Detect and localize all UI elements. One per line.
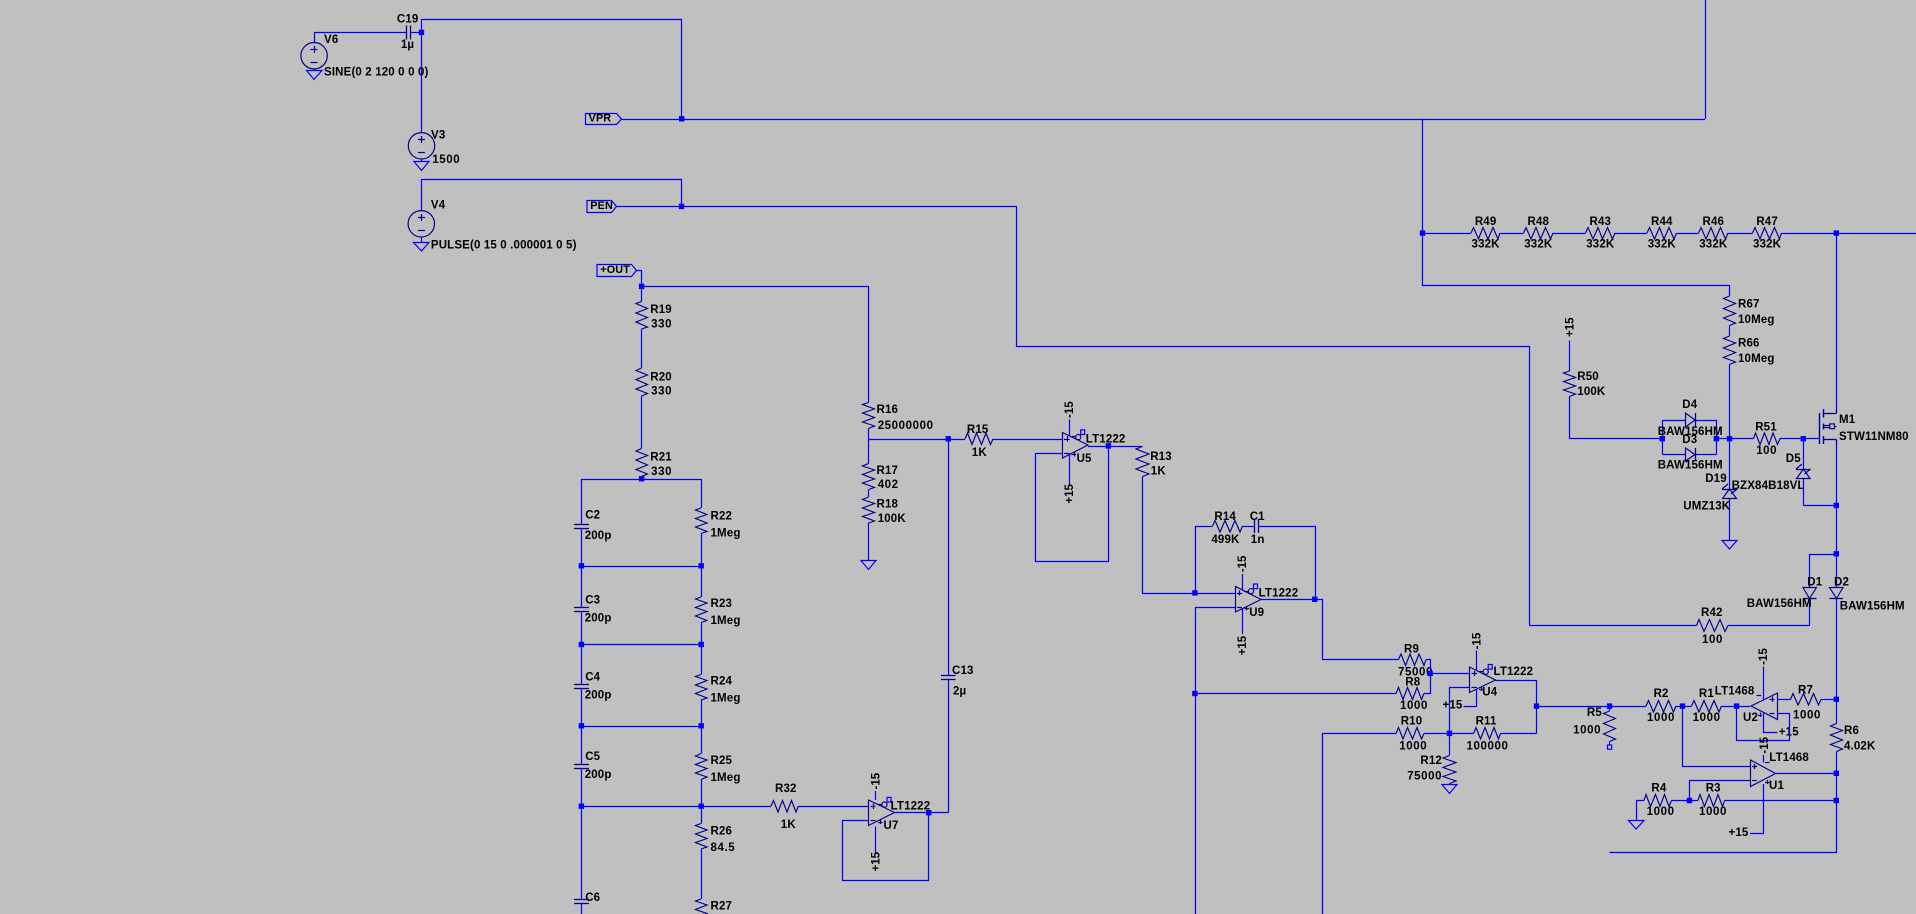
svg-text:1000: 1000	[1400, 700, 1428, 712]
diode D4 BAW156HM	[1686, 413, 1696, 427]
svg-text:100: 100	[1702, 634, 1723, 646]
power pin -15	[1069, 420, 1071, 436]
wire row	[582, 479, 702, 481]
node junction	[579, 642, 584, 647]
wire U5 output	[1088, 446, 1143, 448]
svg-text:R18: R18	[877, 499, 899, 511]
op-amp U9 LT1222	[1236, 587, 1262, 613]
resistor R7	[1791, 694, 1822, 706]
svg-text:R66: R66	[1738, 338, 1760, 350]
svg-text:D4: D4	[1682, 399, 1697, 411]
svg-text:1Meg: 1Meg	[711, 528, 741, 540]
wire	[948, 439, 950, 676]
wire	[1615, 233, 1647, 235]
svg-text:LT1222: LT1222	[1259, 588, 1299, 600]
node junction	[699, 804, 704, 809]
voltage source V6	[301, 43, 327, 69]
svg-text:200p: 200p	[585, 769, 612, 781]
node junction	[946, 436, 951, 441]
svg-text:25000000: 25000000	[878, 420, 934, 432]
svg-text:UMZ13K: UMZ13K	[1683, 501, 1730, 513]
capacitor C13	[941, 675, 956, 677]
svg-text:R47: R47	[1756, 216, 1778, 228]
wire	[1677, 233, 1699, 235]
wire row	[582, 566, 702, 568]
svg-text:1000: 1000	[1399, 741, 1427, 753]
svg-text:332K: 332K	[1524, 239, 1553, 251]
wire	[1422, 119, 1424, 233]
svg-text:R48: R48	[1528, 216, 1550, 228]
wire	[1570, 397, 1663, 439]
power pin -15	[1763, 755, 1765, 763]
wire	[1423, 233, 1472, 235]
node junction	[419, 30, 424, 35]
port square	[1608, 745, 1612, 749]
node junction	[1834, 551, 1839, 556]
svg-text:1000: 1000	[1573, 725, 1601, 737]
wire	[1323, 734, 1397, 914]
power pin +15 wire	[1750, 784, 1764, 834]
wire +OUT rail	[642, 287, 869, 403]
svg-text:R7: R7	[1798, 685, 1813, 697]
svg-text:1µ: 1µ	[401, 39, 414, 51]
node junction	[1714, 436, 1719, 441]
svg-text:R44: R44	[1651, 216, 1673, 228]
svg-text:R3: R3	[1706, 782, 1721, 794]
svg-text:STW11NM80: STW11NM80	[1839, 431, 1909, 443]
svg-text:C3: C3	[585, 595, 600, 607]
svg-text:R17: R17	[877, 465, 899, 477]
resistor R46 332K	[1699, 228, 1729, 240]
svg-text:D2: D2	[1834, 577, 1849, 589]
svg-text:R5: R5	[1587, 707, 1602, 719]
svg-text:332K: 332K	[1753, 239, 1782, 251]
wire	[1500, 233, 1524, 235]
svg-text:VPR: VPR	[589, 112, 612, 124]
resistor R19	[636, 302, 648, 330]
ground	[1449, 784, 1451, 785]
resistor R44 332K	[1647, 228, 1677, 240]
svg-text:PEN: PEN	[590, 200, 613, 212]
capacitor C3	[581, 566, 583, 608]
wire	[1143, 477, 1196, 594]
svg-text:332K: 332K	[1699, 239, 1728, 251]
power pin -15	[1763, 667, 1765, 700]
wire	[314, 32, 406, 34]
svg-text:C13: C13	[952, 665, 974, 677]
wire	[622, 119, 682, 121]
wire	[1725, 800, 1837, 802]
svg-text:10Meg: 10Meg	[1738, 353, 1775, 365]
svg-text:C5: C5	[585, 751, 600, 763]
resistor R4	[1644, 795, 1672, 807]
wire	[1424, 733, 1450, 735]
svg-text:V6: V6	[324, 34, 338, 46]
wire	[1837, 233, 1916, 235]
svg-text:BZX84B18VL: BZX84B18VL	[1732, 480, 1805, 492]
wire	[641, 396, 643, 449]
diode D1 BAW156HM	[1809, 599, 1811, 626]
svg-text:1Meg: 1Meg	[711, 615, 741, 627]
node junction	[1680, 703, 1685, 708]
wire U2 +in	[1777, 699, 1791, 701]
svg-text:PULSE(0 15 0 .000001 0 5): PULSE(0 15 0 .000001 0 5)	[431, 240, 577, 252]
node junction	[1427, 671, 1432, 676]
net label VPR	[586, 114, 622, 125]
wire	[868, 429, 870, 440]
svg-text:U5: U5	[1077, 453, 1092, 465]
node junction	[579, 723, 584, 728]
svg-text:100000: 100000	[1467, 741, 1509, 753]
resistor R20	[636, 368, 648, 396]
wire	[1537, 706, 1610, 708]
resistor R2	[1646, 701, 1676, 713]
svg-text:V4: V4	[431, 200, 446, 212]
wire row	[582, 726, 702, 728]
svg-text:D1: D1	[1807, 577, 1822, 589]
svg-text:R46: R46	[1703, 216, 1725, 228]
svg-text:1Meg: 1Meg	[711, 693, 741, 705]
node junction	[639, 284, 644, 289]
resistor R13	[1136, 447, 1149, 477]
resistor R8	[1396, 688, 1424, 700]
transistor M1 STW11NM80	[1819, 413, 1821, 444]
svg-text:200p: 200p	[585, 613, 612, 625]
capacitor C19	[406, 26, 408, 40]
svg-text:2µ: 2µ	[953, 686, 966, 698]
wire diode box	[1662, 420, 1664, 455]
wire right rail	[1836, 233, 1838, 409]
wire	[1836, 506, 1838, 555]
wire U1 output	[1776, 773, 1837, 775]
svg-text:R9: R9	[1404, 644, 1419, 656]
wire M1 gate	[1804, 438, 1820, 440]
wire	[1729, 326, 1731, 337]
svg-text:75000: 75000	[1407, 771, 1442, 783]
wire	[641, 477, 643, 480]
op-amp U1 LT1468	[1751, 760, 1776, 787]
diode D3 BAW156HM	[1686, 448, 1696, 461]
svg-text:U9: U9	[1249, 607, 1264, 619]
ground	[868, 523, 870, 561]
resistor R27	[696, 899, 708, 914]
svg-text:+15: +15	[871, 851, 883, 871]
resistor R25	[701, 726, 703, 754]
svg-text:D5: D5	[1786, 453, 1801, 465]
wire	[1717, 438, 1730, 440]
resistor R16	[863, 403, 875, 429]
wire	[1730, 438, 1754, 440]
node junction	[679, 116, 684, 121]
svg-text:U2: U2	[1743, 712, 1758, 724]
wire U7 feedback	[843, 813, 929, 881]
resistor R32	[771, 801, 799, 813]
wire U7 output	[895, 812, 949, 814]
ground	[421, 159, 423, 162]
svg-text:R16: R16	[877, 404, 899, 416]
svg-text:R14: R14	[1214, 511, 1236, 523]
svg-text:-15: -15	[1758, 648, 1770, 665]
node junction	[699, 642, 704, 647]
svg-text:499K: 499K	[1211, 534, 1240, 546]
wire	[701, 806, 771, 808]
node junction	[1660, 436, 1665, 441]
svg-text:LT1222: LT1222	[1086, 434, 1126, 446]
svg-text:R2: R2	[1654, 688, 1669, 700]
node junction	[1834, 771, 1839, 776]
wire R8 row	[1195, 693, 1396, 695]
wire	[1553, 233, 1586, 235]
svg-text:D19: D19	[1705, 473, 1727, 485]
svg-text:100K: 100K	[1577, 386, 1606, 398]
svg-text:1000: 1000	[1793, 710, 1821, 722]
svg-text:R49: R49	[1475, 216, 1497, 228]
svg-text:R24: R24	[711, 676, 733, 688]
node junction	[1801, 436, 1806, 441]
resistor R24	[701, 645, 703, 675]
svg-text:BAW156HM: BAW156HM	[1658, 459, 1723, 471]
svg-text:R20: R20	[650, 371, 672, 383]
wire	[1243, 526, 1255, 528]
ground	[1629, 821, 1645, 830]
svg-text:R10: R10	[1401, 716, 1423, 728]
wire	[1610, 706, 1647, 708]
resistor R10	[1396, 728, 1424, 740]
svg-text:+15: +15	[1064, 483, 1076, 503]
node junction	[1834, 503, 1839, 508]
svg-text:C2: C2	[585, 510, 600, 522]
svg-text:R12: R12	[1420, 755, 1442, 767]
voltage source V3	[408, 133, 434, 159]
wire	[637, 271, 642, 287]
ground	[421, 237, 423, 242]
wire row	[582, 806, 702, 808]
svg-text:LT1222: LT1222	[1494, 666, 1534, 678]
node junction	[1834, 697, 1839, 702]
svg-text:200p: 200p	[585, 690, 612, 702]
svg-text:100K: 100K	[878, 513, 907, 525]
wire	[799, 806, 869, 808]
wire U1 -in	[1690, 781, 1751, 801]
svg-text:R1: R1	[1699, 688, 1714, 700]
svg-text:R67: R67	[1738, 298, 1760, 310]
node junction	[1534, 703, 1539, 708]
wire	[1672, 800, 1690, 802]
wire	[1705, 0, 1707, 119]
svg-text:R6: R6	[1844, 725, 1859, 737]
capacitor C1	[1254, 519, 1256, 533]
svg-text:R15: R15	[967, 424, 989, 436]
wire	[1729, 365, 1731, 439]
svg-text:100: 100	[1756, 445, 1777, 457]
resistor R50 100K	[1569, 341, 1571, 372]
wire	[1423, 233, 1730, 296]
capacitor C2	[581, 479, 583, 525]
svg-text:+OUT: +OUT	[600, 264, 630, 276]
resistor R21	[636, 449, 648, 477]
wire	[421, 33, 423, 133]
svg-text:200p: 200p	[585, 530, 612, 542]
wire to U1 +in	[1683, 706, 1751, 767]
svg-text:R50: R50	[1577, 371, 1599, 383]
svg-text:LT1468: LT1468	[1769, 752, 1809, 764]
svg-text:1000: 1000	[1699, 806, 1727, 818]
wire	[641, 287, 643, 302]
wire U4 output	[1496, 681, 1537, 734]
resistor R15	[949, 439, 966, 441]
svg-text:SINE(0 2 120 0 0 0): SINE(0 2 120 0 0 0)	[324, 66, 429, 78]
op-amp U4 LT1222	[1470, 667, 1496, 693]
svg-text:332K: 332K	[1648, 239, 1677, 251]
svg-text:BAW156HM: BAW156HM	[1747, 598, 1812, 610]
svg-text:R4: R4	[1651, 782, 1666, 794]
node junction	[1687, 798, 1692, 803]
node junction	[699, 563, 704, 568]
wire	[1637, 801, 1645, 821]
svg-text:1K: 1K	[781, 819, 797, 831]
svg-text:1000: 1000	[1647, 712, 1675, 724]
svg-text:+15: +15	[1443, 700, 1463, 712]
power pin +15 wire	[1464, 690, 1477, 707]
svg-text:LT1468: LT1468	[1715, 686, 1755, 698]
wire	[1196, 527, 1213, 594]
node junction	[1192, 691, 1197, 696]
svg-text:C1: C1	[1250, 511, 1265, 523]
resistor R6	[1836, 700, 1838, 724]
resistor R5	[1609, 706, 1611, 711]
ground	[314, 69, 316, 71]
svg-text:U4: U4	[1482, 687, 1497, 699]
svg-text:-15: -15	[1759, 736, 1771, 753]
wire U9 -in	[1196, 608, 1236, 914]
zener diode D5 BZX84B18VL	[1803, 439, 1805, 470]
svg-text:R22: R22	[711, 511, 733, 523]
power pin -15	[1476, 651, 1478, 671]
svg-text:84.5: 84.5	[711, 842, 736, 854]
resistor R14	[1213, 521, 1243, 533]
svg-text:+15: +15	[1729, 827, 1749, 839]
node junction	[579, 804, 584, 809]
resistor R49 332K	[1471, 228, 1500, 240]
node junction	[1834, 798, 1839, 803]
resistor R3	[1690, 800, 1699, 802]
svg-text:R43: R43	[1590, 216, 1612, 228]
wire	[1780, 438, 1804, 440]
svg-text:1K: 1K	[972, 447, 988, 459]
svg-text:M1: M1	[1839, 414, 1856, 426]
svg-text:1n: 1n	[1251, 534, 1265, 546]
wire	[1424, 674, 1431, 694]
wire	[1426, 660, 1431, 674]
svg-text:332K: 332K	[1586, 239, 1615, 251]
resistor R51 100	[1754, 433, 1781, 445]
svg-text:+15: +15	[1565, 317, 1577, 337]
node junction	[1106, 443, 1111, 448]
wire	[1722, 706, 1751, 708]
resistor R17	[868, 439, 870, 464]
node junction	[926, 810, 931, 815]
wire M1 source	[1836, 444, 1838, 506]
svg-text:332K: 332K	[1472, 239, 1501, 251]
diode D2 BAW156HM	[1836, 554, 1838, 587]
svg-text:R19: R19	[650, 304, 672, 316]
voltage source V4	[408, 211, 434, 237]
capacitor C6	[581, 806, 583, 900]
capacitor C5	[581, 726, 583, 764]
svg-text:-15: -15	[871, 772, 883, 789]
net label +OUT	[597, 265, 637, 277]
svg-text:1K: 1K	[1151, 466, 1167, 478]
power pin +15	[1242, 609, 1244, 634]
wire	[1728, 625, 1810, 627]
svg-text:C19: C19	[397, 14, 419, 26]
wire PEN rail	[617, 207, 1530, 626]
wire	[1501, 733, 1537, 735]
resistor R11	[1450, 733, 1474, 735]
wire	[1804, 505, 1837, 507]
svg-text:LT1222: LT1222	[891, 800, 931, 812]
op-amp U2 LT1468	[1751, 693, 1778, 720]
wire	[422, 20, 682, 119]
svg-text:R32: R32	[775, 783, 797, 795]
power pin -15	[1242, 574, 1244, 590]
svg-text:R26: R26	[711, 826, 733, 838]
svg-text:R21: R21	[650, 452, 672, 464]
op-amp U5 LT1222	[1063, 433, 1089, 459]
wire	[1430, 673, 1470, 675]
wire	[641, 329, 643, 368]
capacitor C4	[581, 645, 583, 685]
svg-text:V3: V3	[431, 130, 445, 142]
svg-text:402: 402	[878, 479, 899, 491]
node junction	[1734, 703, 1739, 708]
wire	[1836, 599, 1838, 700]
svg-text:330: 330	[651, 466, 672, 478]
wire	[1821, 699, 1837, 701]
wire	[1530, 625, 1697, 627]
wire bottom rail	[1610, 801, 1837, 853]
resistor R12	[1449, 734, 1451, 756]
svg-text:U1: U1	[1769, 780, 1784, 792]
wire	[869, 439, 949, 441]
resistor R22	[701, 479, 703, 508]
svg-text:BAW156HM: BAW156HM	[1840, 601, 1905, 613]
resistor R26	[701, 806, 703, 824]
svg-text:4.02K: 4.02K	[1844, 741, 1876, 753]
svg-text:-15: -15	[1237, 555, 1249, 572]
wire VPR rail	[682, 119, 1706, 121]
node junction	[1192, 590, 1197, 595]
power pin +15	[1069, 455, 1071, 486]
wire	[1315, 600, 1399, 660]
svg-text:R27: R27	[711, 901, 733, 913]
net label PEN	[587, 201, 617, 213]
svg-text:C6: C6	[585, 892, 600, 904]
node junction	[1607, 703, 1612, 708]
node junction	[699, 723, 704, 728]
power pin +15 wire	[1764, 713, 1778, 733]
node junction	[1312, 597, 1317, 602]
svg-text:R51: R51	[1755, 421, 1777, 433]
svg-text:R23: R23	[711, 598, 733, 610]
resistor R47 332K	[1753, 228, 1782, 240]
node junction	[639, 476, 644, 481]
wire	[422, 180, 682, 207]
resistor R1	[1692, 701, 1722, 713]
resistor R23	[701, 566, 703, 597]
node junction	[1727, 436, 1732, 441]
svg-text:1000: 1000	[1647, 806, 1675, 818]
